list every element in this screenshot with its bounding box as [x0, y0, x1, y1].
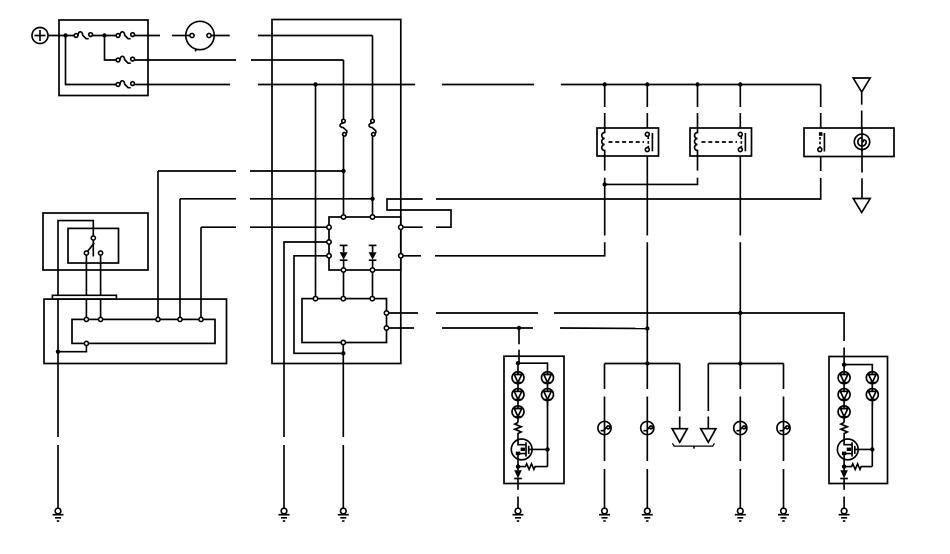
relay K2 box — [690, 128, 752, 156]
ground G5 — [599, 508, 610, 521]
LED 9 right column — [866, 372, 878, 389]
wire lamp column 4 — [783, 364, 785, 390]
central control unit box — [272, 20, 401, 364]
switch SW2 lever — [88, 243, 95, 251]
wire lamp 2 ground stub — [646, 469, 648, 508]
pin left 3 — [327, 254, 331, 258]
lamp distribution bar left — [605, 363, 680, 365]
antenna arrow bottom — [853, 199, 870, 213]
LED 6 — [838, 372, 850, 389]
control module inner box — [72, 319, 215, 343]
node ground junction — [56, 350, 60, 354]
wire source to junction — [843, 465, 845, 471]
wire arrow column 1 — [679, 364, 681, 412]
wire LED tap down 2 — [518, 350, 520, 364]
wire relay K1 coil lower — [604, 178, 606, 185]
power bus wire — [258, 84, 415, 86]
wire illumination feed segment 1 — [389, 327, 414, 329]
wire down to breaker F6 — [372, 36, 374, 120]
out arrow 2 — [701, 429, 716, 443]
node bus tap K2 coil — [695, 82, 699, 86]
wire lamp 1 ground stub — [604, 469, 606, 508]
wire K2 contact top stub 2 — [739, 113, 741, 128]
LED 8 — [838, 406, 850, 423]
wire K2 contact down — [739, 156, 741, 236]
wire assembly right ground stub — [843, 484, 845, 490]
node LED assembly tap — [517, 326, 521, 330]
wire illumination feed segment 3 — [560, 327, 647, 330]
wire assembly ground stub 2 — [517, 497, 519, 509]
wire diode box top pin2 down — [372, 272, 374, 296]
switch SW2 throw right pin — [99, 251, 103, 255]
wire arrow column 1 lower — [679, 417, 681, 429]
wire K1 contact top stub — [646, 85, 648, 108]
antenna arrow top — [853, 78, 870, 92]
wire IG1 to breaker — [258, 35, 373, 37]
wire row B down — [179, 199, 181, 317]
wire row C after connector — [250, 226, 327, 228]
wire ground run lower — [57, 445, 59, 508]
module pin 2 — [99, 317, 103, 321]
wire lamp column 2 — [646, 364, 648, 390]
wire junction to module pin — [58, 346, 86, 352]
node lamp column junction — [645, 326, 649, 330]
diode D1 — [340, 245, 348, 267]
wire row C — [201, 226, 236, 228]
wire feed down — [517, 363, 519, 372]
fuse box — [59, 20, 148, 96]
node source junction right — [842, 464, 846, 468]
wire row A down — [157, 171, 159, 317]
pin bottom 2 — [370, 268, 374, 272]
fuse F2 — [116, 32, 134, 39]
wire K1 coil top stub 2 — [604, 113, 606, 128]
wire K2 contact to lamp bar — [739, 347, 741, 364]
wire antenna top stub — [861, 92, 863, 105]
power bus wire segment 3 — [561, 84, 821, 86]
pin top 2 — [370, 215, 374, 219]
resistor R2 — [518, 464, 548, 470]
switch SW2 pole — [92, 240, 94, 256]
wire diode box top pin1 down — [343, 272, 345, 296]
wire F4 output — [135, 84, 231, 86]
wire arrow column 2 lower — [707, 417, 709, 429]
node LED assembly right feed — [842, 362, 846, 366]
out arrow 1 — [672, 429, 687, 443]
LED assembly box left — [504, 356, 564, 483]
C2 pin bottom — [341, 340, 345, 344]
C2 pin top 1 — [313, 296, 317, 300]
fuse F1 — [74, 32, 92, 39]
wire row B after connector — [250, 198, 373, 200]
wire K1 contact down — [646, 156, 648, 236]
wire jog segment — [387, 199, 451, 227]
diode connector box — [329, 217, 401, 270]
fuse F3 — [116, 56, 134, 63]
pin left 1 — [327, 225, 331, 229]
wire bus tap down — [315, 85, 317, 297]
wire row C down — [200, 227, 202, 317]
relay K1 contact — [645, 132, 652, 151]
relay K1 coil — [602, 128, 605, 156]
wire tail lamp feed right segment 1 — [389, 312, 418, 314]
wire feed to right column — [518, 363, 548, 372]
C2 pin right 2 — [384, 326, 388, 330]
wire down to breaker W2 — [343, 60, 345, 120]
wire coil run after connector — [435, 242, 605, 256]
pin right 1 — [399, 225, 403, 229]
diode D4 — [840, 470, 848, 483]
wire lamp 3 to ground — [739, 434, 741, 461]
module pin 1 — [84, 317, 88, 321]
battery B1 — [32, 28, 48, 44]
C2 pin top 3 — [370, 296, 374, 300]
node bus tap K2 contact — [738, 82, 742, 86]
diode D3 — [514, 470, 522, 483]
wire right column to gate node — [871, 401, 873, 450]
node bus tap K1 contact — [645, 82, 649, 86]
wire ground run lower — [342, 445, 344, 508]
wire K1 contact down 2 — [646, 242, 648, 347]
wire right column down — [547, 449, 549, 466]
wire relay K1 coil stub — [604, 156, 606, 171]
wire K2 contact down 2 — [739, 242, 741, 347]
wire F1 to F2 — [93, 35, 117, 37]
wire lamp 3 ground stub — [739, 469, 741, 508]
wire pin left3 to lamp return — [294, 256, 341, 353]
wire feed stub — [843, 348, 845, 365]
LED 5 right column — [542, 389, 554, 406]
wire junction down to fuse F3 — [105, 36, 117, 61]
LED assembly box right — [829, 357, 888, 484]
wire illumination feed segment 2 — [442, 327, 533, 329]
wire pin right2 to coil run — [403, 255, 421, 257]
ground G4 — [513, 508, 524, 521]
MOSFET Q1 — [511, 439, 547, 465]
module pin 4 — [178, 317, 182, 321]
lamp distribution bar right — [708, 363, 783, 365]
ground G3 — [338, 508, 349, 521]
wire junction to ground — [342, 353, 344, 437]
wire pin left2 to ground run — [284, 242, 327, 437]
wire condenser down stub 2 — [861, 178, 863, 198]
ground G1 — [53, 508, 64, 521]
node lamp bar junction K2 — [738, 361, 742, 365]
wire K3 top stub 2 — [820, 113, 822, 128]
wire junction down to fuse F4 — [66, 36, 117, 85]
resistor R4 — [844, 464, 872, 470]
wire condenser down stub — [861, 157, 863, 173]
node fuse box junction — [102, 33, 106, 37]
wire right column to gate node — [547, 401, 549, 450]
wire ignition switch output — [211, 35, 230, 37]
LED 4 right column — [542, 372, 554, 389]
node source junction — [516, 464, 520, 468]
node breaker F5 / feed junction — [341, 169, 345, 173]
wire K2 coil top stub — [697, 85, 699, 108]
LED 3 — [512, 406, 524, 423]
wire battery to fuse box — [48, 35, 74, 37]
wire lamp column 3 lower — [739, 397, 741, 422]
node bus tap K1 coil — [603, 82, 607, 86]
resistor R1 — [515, 423, 521, 440]
wire coil run upper — [604, 184, 606, 235]
wire lamp column 3 — [739, 364, 741, 390]
pin left 2 — [327, 240, 331, 244]
noise condenser (spiral) — [854, 128, 869, 157]
wire K1 contact top stub 2 — [646, 113, 648, 128]
wire lamp 2 to ground — [646, 434, 648, 461]
relay K2 contact — [738, 132, 745, 151]
node gate junction — [545, 447, 549, 451]
wire connector to ignition switch — [172, 35, 186, 37]
node lamp return junction — [341, 351, 345, 355]
wire pin right1 jog — [403, 226, 423, 228]
MOSFET Q2 — [837, 439, 872, 465]
module pin 5 — [199, 317, 203, 321]
wire breaker F5 down — [343, 136, 345, 215]
wire row A to switch unit — [158, 170, 236, 172]
pin bottom 1 — [341, 268, 345, 272]
wire lamp column 1 — [604, 364, 606, 390]
lamp bulb 1 — [598, 421, 611, 434]
wire tail lamp feed segment 3 — [554, 313, 844, 341]
resistor R3 — [841, 423, 847, 440]
C2 pin top 2 — [341, 296, 345, 300]
module pin bottom — [84, 341, 88, 345]
LED 2 — [512, 389, 524, 406]
wire K2 contact top stub — [739, 85, 741, 108]
switch unit inner box — [68, 228, 119, 263]
diode D2 — [369, 245, 377, 267]
wire tail lamp feed segment 2 — [436, 312, 538, 314]
ignition switch SW1 — [186, 21, 214, 51]
wire feed to right column — [844, 365, 872, 372]
relay K2 coil — [695, 128, 698, 156]
LED 10 right column — [866, 389, 878, 406]
module pin 3 — [156, 317, 160, 321]
wire SW2 common up-over — [58, 221, 93, 350]
node LED assembly feed — [516, 361, 520, 365]
ground G6 — [642, 508, 653, 521]
node gate junction right — [870, 447, 874, 451]
wire lamp column 2 lower — [646, 397, 648, 422]
switch SW2 common pin — [91, 236, 95, 240]
ground G7 — [735, 508, 746, 521]
wire arrow column 2 — [707, 364, 709, 412]
wire K1 contact to lamp bar — [646, 347, 648, 364]
switch SW2 throw left pin — [84, 251, 88, 255]
bottom connector box C2 — [302, 299, 387, 343]
wire lamp column 4 lower — [783, 397, 785, 422]
relay K3 box — [804, 128, 894, 157]
breaker F5 — [340, 119, 347, 136]
wire row B — [180, 198, 236, 200]
lamp bulb 4 — [777, 421, 790, 434]
wire lamp 4 ground stub — [783, 469, 785, 508]
relay K1 link dashed — [609, 141, 645, 143]
pin right 2 — [399, 254, 403, 258]
pin top 1 — [341, 215, 345, 219]
LED 7 — [838, 389, 850, 406]
node power bus tap — [313, 82, 317, 86]
wire source to junction — [517, 465, 519, 471]
wire F3 output — [135, 59, 237, 61]
relay K2 link dashed — [702, 141, 738, 143]
wire SW2 throw right down — [100, 255, 102, 317]
wire relay K2 coil link — [605, 178, 698, 185]
node lamp bar junction K1 — [645, 361, 649, 365]
fuse F4 — [116, 81, 134, 88]
arrow bracket — [672, 443, 714, 448]
wire F2 to connector — [135, 35, 161, 37]
ground G8 — [778, 508, 789, 521]
control unit box — [44, 299, 227, 363]
wire row A after connector — [250, 170, 344, 172]
C2 pin right 1 — [384, 311, 388, 315]
wire K1 coil top stub — [604, 85, 606, 108]
power bus wire segment 2 — [442, 84, 534, 86]
wire F3 output after connector — [251, 59, 344, 61]
breaker F6 — [369, 119, 376, 136]
switch unit outer box — [43, 213, 148, 270]
wire LED tap down — [518, 328, 520, 344]
connector bar — [52, 295, 116, 299]
wire bus corner into K3 — [820, 85, 822, 108]
wire antenna top stub 2 — [861, 111, 863, 129]
wire feed down — [843, 365, 845, 372]
wire right column down — [871, 449, 873, 466]
relay K3 switch — [818, 132, 825, 151]
wire lamp 1 to ground — [604, 434, 606, 461]
wire junction to ground — [57, 352, 59, 437]
wire ground run lower — [283, 445, 285, 508]
lamp bulb 2 — [641, 421, 654, 434]
node relay coil junction — [603, 182, 607, 186]
wire breaker F6 down — [372, 136, 374, 215]
ground G2 — [279, 508, 290, 521]
LED 1 — [512, 372, 524, 389]
wire assembly right ground stub 2 — [843, 497, 845, 509]
wire SW2 throw left down — [85, 255, 87, 317]
wire C2 bottom pin to junction — [342, 345, 344, 354]
ground G9 — [839, 508, 850, 521]
wire K2 coil top stub 2 — [697, 113, 699, 128]
lamp bulb 3 — [734, 421, 747, 434]
node breaker F6 / feed junction — [370, 197, 374, 201]
wire long run to relay K3 — [436, 178, 821, 199]
wire assembly to ground stub — [517, 484, 519, 490]
relay K1 box — [597, 128, 659, 156]
node battery feed junction — [63, 33, 67, 37]
node relay K2 contact tap — [738, 311, 742, 315]
wire lamp 4 to ground — [783, 434, 785, 461]
wire lamp column 1 lower — [604, 397, 606, 422]
wire relay K3 lower stub — [820, 157, 822, 172]
wire relay K2 coil stub — [697, 156, 699, 171]
